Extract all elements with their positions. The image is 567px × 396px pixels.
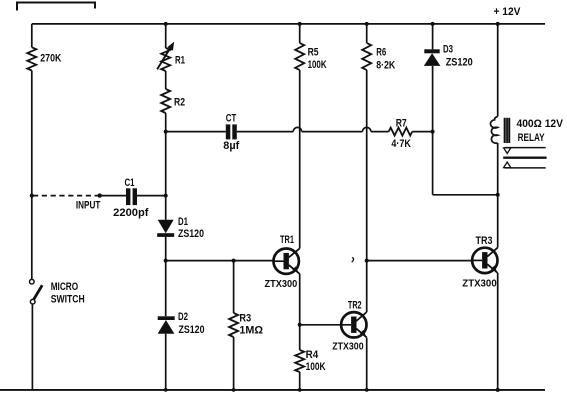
wire: relay coil to TR3 collector [497,143,499,248]
junction: TR2 ground [365,388,369,392]
wire: left branch middle [31,71,33,280]
relay contact 1 (NC) [505,147,546,149]
svg-text:ZS120: ZS120 [179,324,205,336]
junction: TR1 base line [164,259,168,263]
wire: CT to hop1 [237,131,293,133]
svg-text:CT: CT [226,113,237,125]
junction: R6 wire / rail [365,22,369,26]
junction: R3 ground [232,388,236,392]
resistor R1 (variable) [161,48,170,71]
wire: R3 to ground [233,337,235,390]
wire: R6 branch top [366,24,368,43]
wire: TR1 base line [166,260,274,262]
resistor R7 [389,128,413,136]
wire: D1 to D2 [165,237,167,316]
svg-text:4·7K: 4·7K [391,138,411,150]
junction: relay wire / rail [496,22,500,26]
relay contact 2 (common) [503,156,546,158]
resistor R5 [295,43,304,70]
wire: dashed input line [33,195,100,197]
junction: C1 / R2 branch [164,194,168,198]
junction: D3 wire / rail [431,22,435,26]
svg-text:+ 12V: + 12V [494,6,522,18]
wire: TR3 base line [367,260,472,262]
wire: C1 to R2 branch [137,195,166,197]
junction: CT line tap [164,130,168,134]
wire: R7 to D3 wire [412,131,432,133]
wire: R3 branch [233,261,235,313]
wire: left branch top [31,24,33,47]
wire: D3 to corner [432,66,434,195]
junction: input tap [30,194,34,198]
wire: input to C1 [100,195,126,197]
resistor R3 [229,313,238,337]
svg-text:RELAY: RELAY [518,132,545,144]
wire: hop1 to hop2 [302,131,363,133]
junction: D2 ground [164,388,168,392]
svg-text:R4: R4 [306,349,319,361]
svg-text:INPUT: INPUT [76,200,101,212]
wire: corner to relay wire [433,194,498,196]
svg-text:R2: R2 [174,97,185,109]
wire: TR1 emitter down [299,274,301,350]
diode D1 ZS120 [158,220,174,233]
wire: R2 bottom to CT [166,131,226,133]
svg-text:D2: D2 [178,311,188,323]
wire: R6 to TR2 collector [366,70,368,312]
wire: R2 to D1 [165,113,167,220]
svg-text:R7: R7 [396,118,407,130]
wire hop over R5 wire [293,127,301,131]
resistor R6 [362,43,371,70]
wire hop over R6 wire [363,127,371,131]
wire: TR2 emitter to ground [366,338,368,390]
svg-text:100K: 100K [308,59,327,71]
corner bracket (cropped box edge) [17,3,95,11]
svg-text:2200pf: 2200pf [113,207,149,219]
wire: R6... R5 branch top [299,24,301,43]
junction: TR2 base tap [298,323,302,327]
svg-text:100K: 100K [306,361,326,373]
ground/0V rail [0,389,545,391]
junction: TR3 base tap [365,259,369,263]
svg-text:TR1: TR1 [280,234,294,246]
junction: flyback / relay wire [496,193,500,197]
resistor 270K [27,47,36,70]
micro switch [30,279,35,284]
wire: left branch bottom [31,304,33,390]
svg-text:8µf: 8µf [223,140,239,152]
wire: hop2 to R7 [371,131,389,133]
wire: R1 to R2 [165,71,167,89]
diode D2 ZS120 [158,316,175,320]
junction: R5 wire / rail [298,22,302,26]
svg-text:R1: R1 [175,55,185,67]
resistor R2 [161,89,170,113]
svg-text:TR3: TR3 [476,235,493,247]
svg-text:ZS120: ZS120 [178,228,204,240]
+12V supply rail [32,23,545,25]
svg-text:ZTX300: ZTX300 [265,279,298,290]
svg-text:ZTX300: ZTX300 [462,279,497,290]
transistor TR2 ZTX300 [341,312,366,337]
junction: R7 / D3 wire [431,130,435,134]
svg-text:MICRO: MICRO [51,281,79,293]
svg-text:8·2K: 8·2K [376,60,395,72]
svg-text:400Ω 12V: 400Ω 12V [517,118,564,130]
wire: relay branch top [497,24,499,117]
svg-text:C1: C1 [125,177,135,189]
wire: R1 branch top [165,24,167,48]
transistor TR3 ZTX300 [472,248,497,273]
relay contact 3 (NO) [505,167,546,169]
svg-text:R5: R5 [308,47,319,59]
resistor R4 [295,350,304,372]
wire: TR2 base line [300,324,341,326]
svg-text:1MΩ: 1MΩ [239,325,263,337]
wire: D2 to ground [165,334,167,390]
capacitor CT 8uf [226,124,231,139]
junction: R4 ground [298,388,302,392]
diode D3 ZS120 [424,49,439,53]
junction: R3 tap [232,259,236,263]
input terminal [98,193,102,197]
svg-text:270K: 270K [40,53,61,65]
wire: D3 branch top [432,24,434,49]
svg-text:ZTX300: ZTX300 [332,342,364,353]
svg-text:ZS120: ZS120 [446,57,473,69]
svg-text:D1: D1 [178,216,188,228]
junction: relay branch ground [496,388,500,392]
wire: R5 to TR1 collector [299,70,301,248]
stray mark (scan comma) [352,258,354,263]
svg-text:D3: D3 [443,44,453,56]
svg-text:R3: R3 [239,313,251,325]
svg-text:SWITCH: SWITCH [51,294,85,306]
relay coil 400 ohm [490,117,497,144]
wire: TR3 emitter to ground [497,273,499,390]
svg-text:TR2: TR2 [348,300,362,312]
transistor TR1 ZTX300 [274,249,299,274]
relay core [503,118,505,143]
junction: R1 wire / rail [164,22,168,26]
wire: R4 to ground [299,372,301,390]
capacitor C1 [126,188,130,205]
svg-text:R6: R6 [376,47,386,59]
